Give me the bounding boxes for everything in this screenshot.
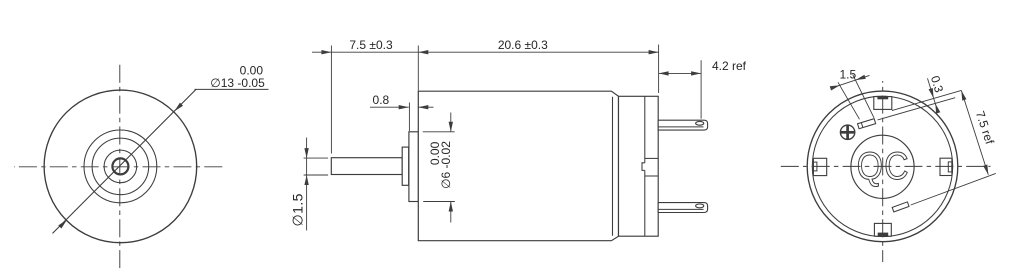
- rear terminal slot top: [874, 97, 892, 110]
- extension line from lower slot: [911, 173, 996, 205]
- marking slot lower: [892, 202, 909, 212]
- endbell latch notch: [642, 163, 645, 171]
- arrow 0.8 left: [399, 105, 409, 109]
- dimension line 1.5: [833, 75, 870, 87]
- arrow diam 1.5 bottom: [304, 175, 308, 185]
- arrow diam 6 top: [449, 122, 453, 132]
- dimension 0.8 left line: [370, 106, 409, 108]
- dimension 0.8 right line: [418, 106, 433, 108]
- arrow 1.5 right: [855, 75, 866, 82]
- svg-text:4.2 ref: 4.2 ref: [712, 59, 747, 73]
- dimension line 7.5 and 20.6: [312, 51, 659, 53]
- dimension line diam 6 lower: [450, 202, 452, 223]
- bearing boss circle 2: [92, 138, 149, 195]
- extension line E2 slot: [853, 75, 874, 118]
- rear hub line lower: [645, 175, 658, 177]
- arrow diam 6 bottom: [449, 202, 453, 212]
- extension line shaft top: [304, 157, 329, 159]
- extension line A from top slot: [892, 90, 961, 110]
- marking slot upper (1.5 long): [858, 119, 876, 129]
- front view vertical centerline: [119, 61, 121, 272]
- bearing boss circle 3: [104, 150, 137, 183]
- extension line body left face: [417, 46, 419, 91]
- rear outer circle: [807, 91, 958, 242]
- arrow 7.5 ref top: [959, 90, 966, 101]
- rear view horizontal centerline: [778, 165, 991, 167]
- extension line shaft tip: [330, 46, 332, 154]
- diameter 13 leader arrow upper: [173, 103, 183, 113]
- svg-text:20.6 ±0.3: 20.6 ±0.3: [498, 38, 548, 52]
- extension line endbell face: [658, 45, 660, 94]
- rear rim circle: [812, 96, 952, 236]
- dimension line 4.2 ref: [659, 72, 702, 74]
- dimension line diam 6 upper: [450, 113, 452, 132]
- extension line B from marking slot: [878, 98, 956, 120]
- svg-text:∅6 -0.02: ∅6 -0.02: [439, 141, 453, 189]
- svg-text:QC: QC: [857, 144, 910, 188]
- extension line E1 slot: [838, 82, 860, 119]
- rear side tab right inner: [948, 162, 952, 172]
- rear terminal bottom (filled): [878, 233, 888, 236]
- motor can body: [418, 91, 618, 241]
- bushing collar (diam 6, 0.8 wide): [409, 132, 419, 202]
- arrow at shaft tip: [321, 50, 331, 54]
- polarity mark cross: [841, 131, 855, 134]
- terminal tab lower fold line: [658, 208, 703, 210]
- front view horizontal centerline: [14, 166, 225, 168]
- dimension line 7.5 ref: [961, 90, 988, 174]
- arrow at endbell face: [649, 50, 659, 54]
- dimension line diam 1.5: [306, 138, 308, 231]
- endbell cap: [619, 96, 659, 236]
- bearing boss circle 1: [84, 130, 157, 203]
- diameter 13 leader arrow lower: [58, 218, 68, 228]
- svg-text:0.8: 0.8: [373, 93, 390, 107]
- arrow 0.8 right: [418, 105, 428, 109]
- arrow at body left face: [418, 50, 428, 54]
- terminal tab lower: [658, 203, 707, 213]
- extension line collar top: [423, 131, 455, 133]
- extension line collar left edge: [408, 103, 410, 132]
- QC stamp letters: [857, 144, 910, 188]
- arrow 7.5 ref bottom: [983, 165, 990, 176]
- extension line collar bottom: [423, 201, 455, 203]
- extension line shaft bottom: [304, 174, 329, 176]
- rear side tab right: [940, 158, 952, 175]
- arrow 4.2 left: [659, 71, 669, 75]
- arrow 1.5 left: [830, 83, 841, 90]
- shaft circle (bold): [112, 158, 128, 174]
- polarity mark circle: [840, 125, 854, 139]
- rear terminal top (filled): [878, 97, 888, 99]
- diameter 13 leader line: [53, 89, 197, 233]
- endbell step line upper: [644, 96, 646, 163]
- terminal tab lower slot: [696, 204, 704, 208]
- shaft step boss: [402, 147, 409, 185]
- svg-text:1.5: 1.5: [839, 68, 856, 82]
- terminal tab upper: [658, 120, 707, 130]
- arrow 0.3 upper: [929, 88, 936, 99]
- arrow 4.2 right: [691, 71, 701, 75]
- motor body outer circle (diam 13): [44, 90, 197, 243]
- arrow 0.3 lower: [933, 103, 940, 114]
- rear side tab left: [813, 158, 826, 175]
- QC stamp circle: [851, 135, 914, 198]
- terminal tab upper fold line: [658, 126, 703, 128]
- arrow diam 1.5 top: [304, 148, 308, 158]
- svg-text:7.5 ±0.3: 7.5 ±0.3: [349, 38, 393, 52]
- rear hub line upper: [645, 157, 658, 159]
- shaft (side view): [331, 158, 402, 175]
- svg-text:∅1.5: ∅1.5: [289, 193, 305, 226]
- rear view vertical centerline: [882, 81, 884, 262]
- can crimp seam line: [612, 97, 614, 236]
- dimension line 0.3: [928, 78, 939, 112]
- terminal tab upper slot: [696, 121, 704, 125]
- rear terminal slot bottom: [874, 223, 891, 236]
- extension line terminal end: [700, 60, 702, 118]
- svg-text:∅13 -0.05: ∅13 -0.05: [210, 76, 265, 90]
- rear side tab left inner: [813, 162, 817, 171]
- endbell step line lower: [644, 170, 646, 236]
